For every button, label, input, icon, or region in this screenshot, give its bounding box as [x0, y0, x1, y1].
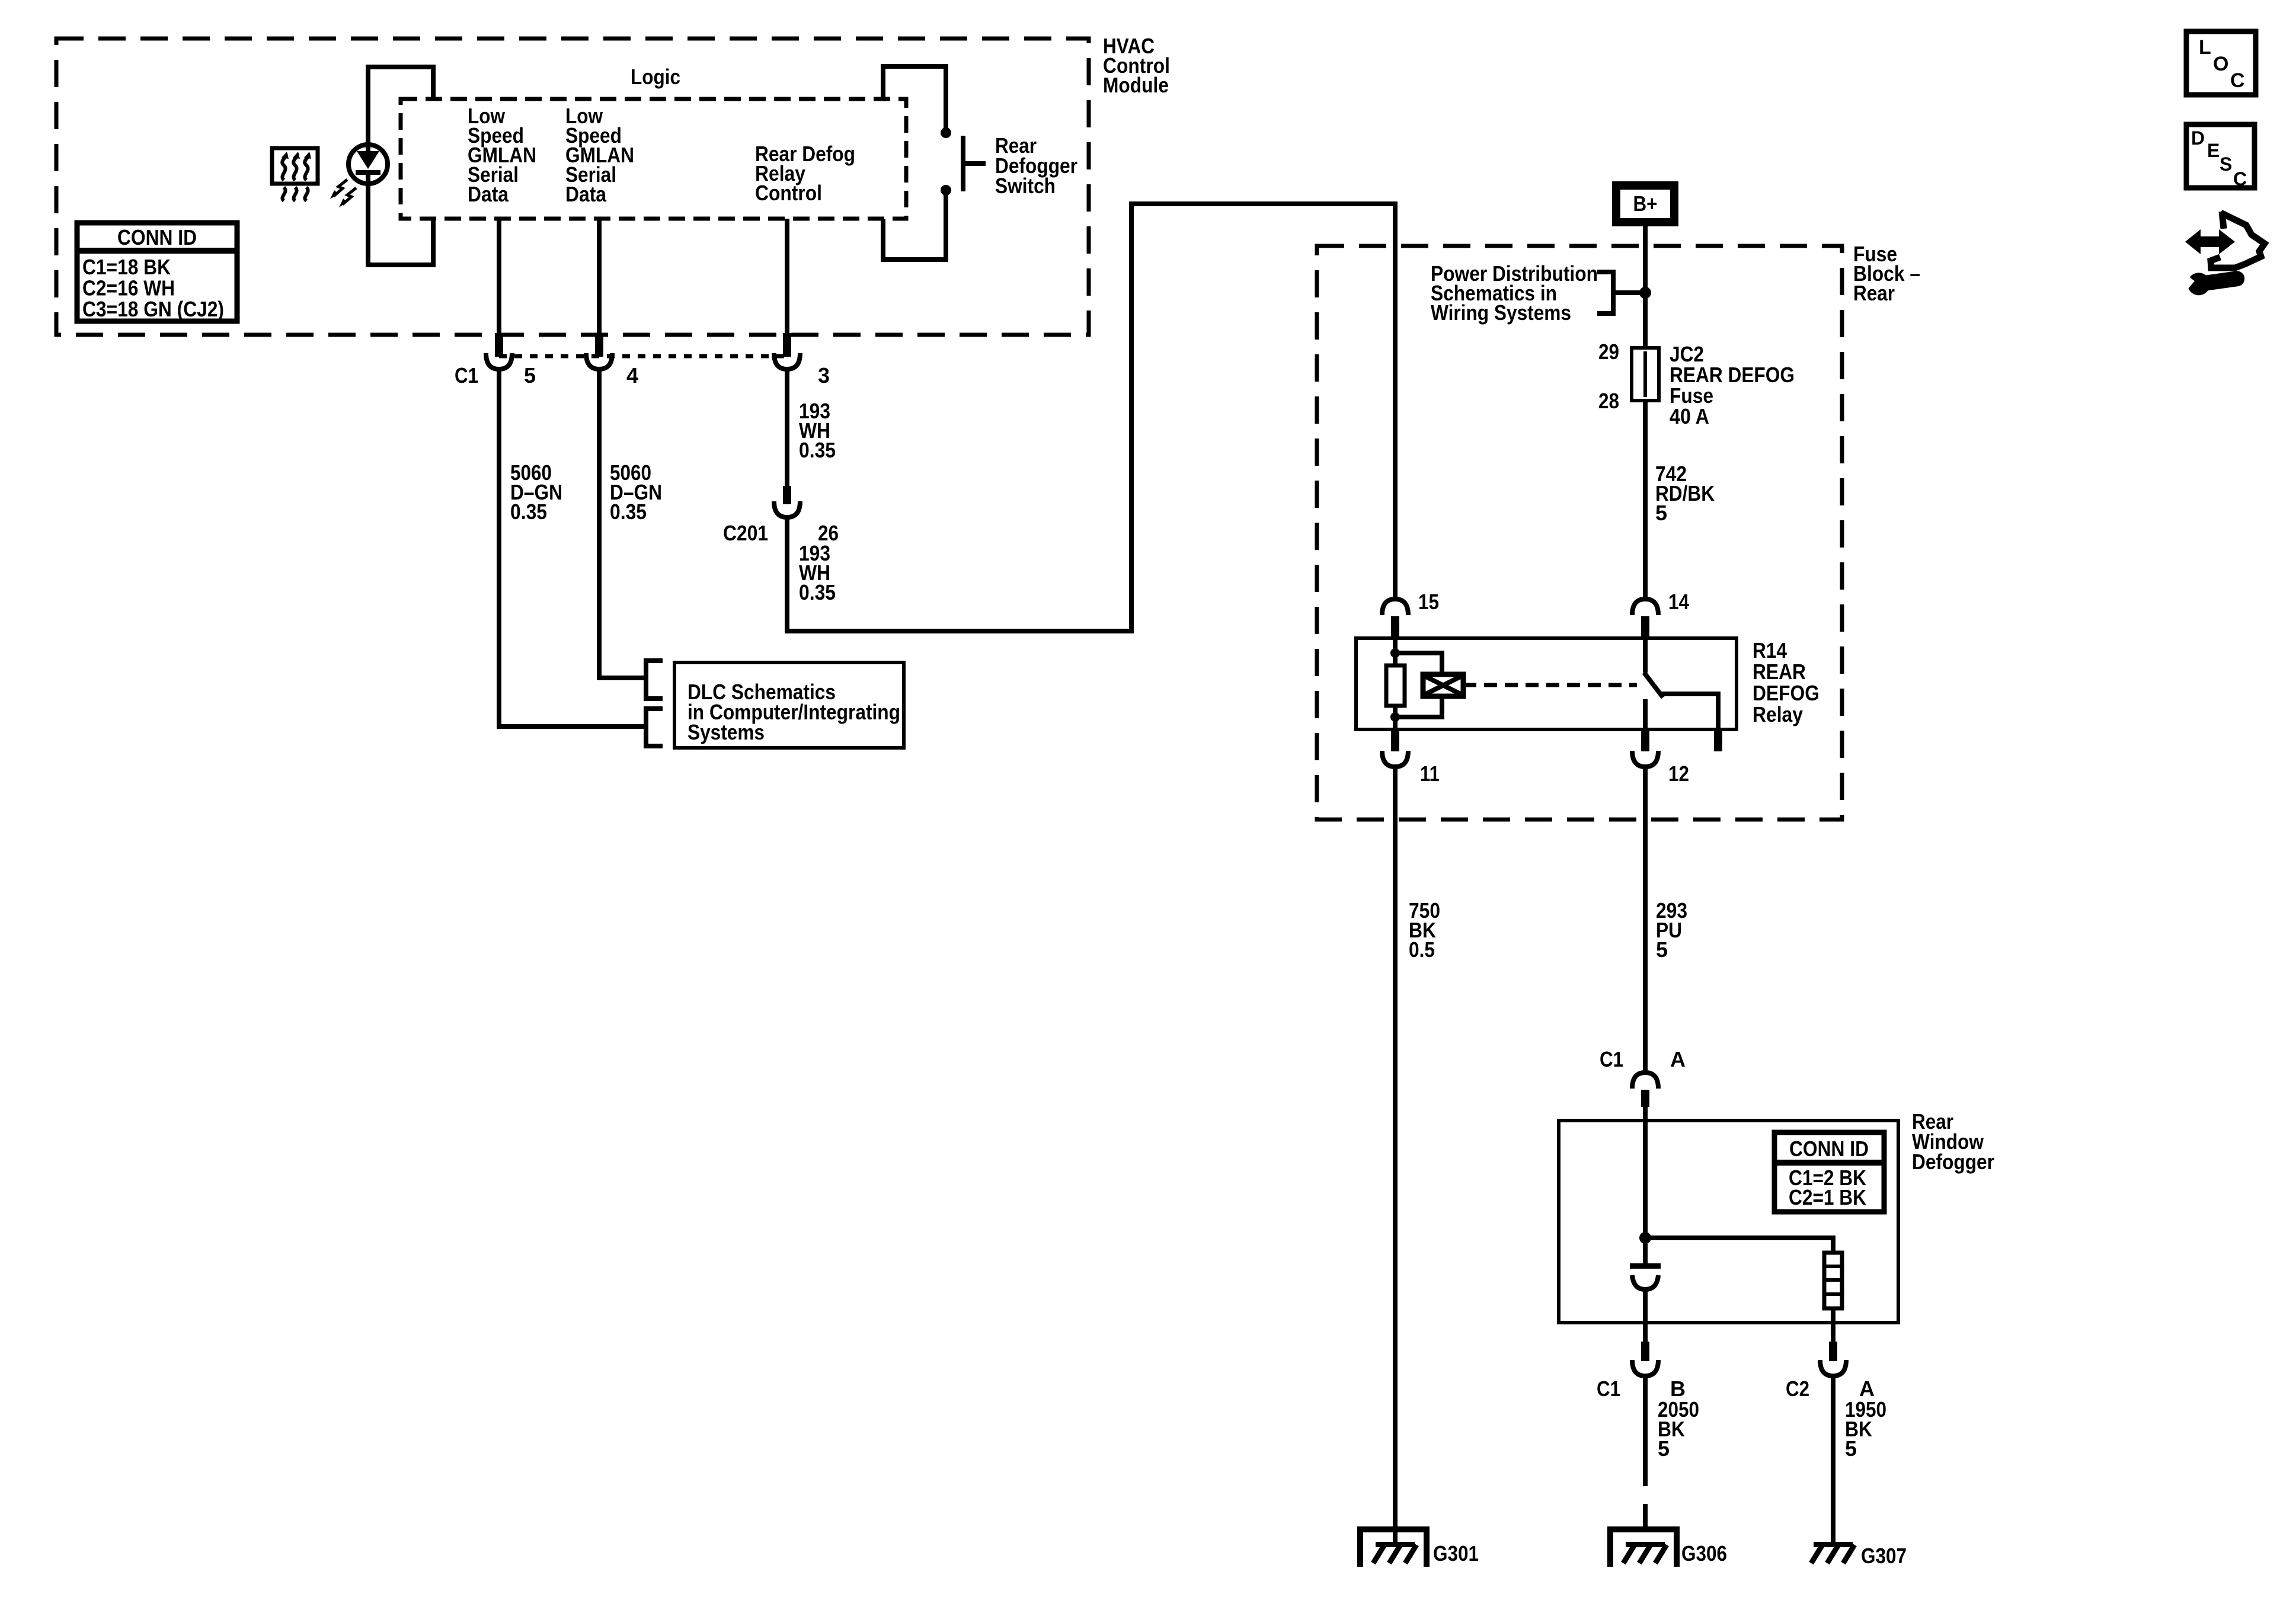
svg-text:L: L — [2199, 36, 2211, 59]
LED indicator — [348, 145, 388, 184]
switch contact dot lower — [941, 185, 951, 196]
coil junction bottom — [1390, 712, 1400, 722]
svg-text:Relay: Relay — [1753, 702, 1803, 726]
svg-text:12: 12 — [1668, 761, 1689, 786]
svg-text:Module: Module — [1103, 73, 1169, 97]
wire 193 WH upper — [785, 369, 789, 486]
svg-text:5: 5 — [1658, 1436, 1670, 1461]
relay pin 14 terminal — [1632, 599, 1658, 615]
connector C1 B — [1643, 1323, 1648, 1342]
wire 2050 BK dashed part — [1643, 1459, 1648, 1541]
fuse JC2 body — [1632, 348, 1659, 401]
defogger junction — [1639, 1232, 1651, 1244]
svg-text:Defogger: Defogger — [1912, 1150, 1994, 1174]
svg-text:C1: C1 — [1597, 1377, 1620, 1401]
svg-text:REAR: REAR — [1753, 660, 1806, 684]
relay NO contact path — [1661, 694, 1718, 729]
defogger grid pickup — [1632, 1275, 1658, 1289]
svg-text:C1: C1 — [455, 363, 478, 388]
rear defogger indicator icon — [272, 148, 318, 184]
wire 2050 BK solid part — [1643, 1376, 1648, 1459]
svg-text:Systems: Systems — [687, 720, 765, 744]
svg-text:0.35: 0.35 — [799, 580, 836, 604]
svg-text:3: 3 — [818, 363, 830, 388]
svg-text:29: 29 — [1598, 340, 1619, 364]
defogger feed wire — [1643, 1121, 1648, 1263]
svg-text:0.5: 0.5 — [1409, 937, 1435, 962]
wire 742 RD/BK — [1643, 401, 1648, 600]
B+ battery terminal — [1616, 185, 1674, 222]
svg-text:C2: C2 — [1786, 1377, 1809, 1401]
svg-text:G307: G307 — [1861, 1544, 1907, 1568]
connector C1 A — [1632, 1073, 1658, 1089]
svg-text:15: 15 — [1418, 590, 1439, 614]
svg-text:A: A — [1670, 1047, 1686, 1071]
svg-text:Control: Control — [755, 181, 822, 205]
DLC connector bracket upper — [646, 661, 663, 699]
CONN ID table (HVAC) — [77, 223, 237, 321]
wire 5060 D-GN (pin 5) — [499, 369, 644, 726]
relay pin 12 terminal — [1641, 729, 1649, 751]
svg-text:Data: Data — [565, 182, 607, 206]
svg-text:G306: G306 — [1681, 1541, 1727, 1566]
switch contact dot upper — [941, 127, 951, 138]
pin 4 terminal — [595, 333, 603, 357]
coil junction top — [1390, 648, 1400, 658]
svg-text:5: 5 — [1845, 1436, 1857, 1461]
svg-text:Switch: Switch — [995, 174, 1056, 198]
svg-text:R14: R14 — [1753, 638, 1787, 662]
svg-text:DEFOG: DEFOG — [1753, 681, 1819, 705]
Rear Window Defogger box — [1559, 1121, 1898, 1323]
push-button actuator — [963, 136, 986, 191]
ground G301 — [1360, 1529, 1427, 1567]
LOC icon box — [2186, 31, 2256, 95]
fuse JC2 wire — [1643, 348, 1648, 401]
pin 4 wire — [597, 219, 602, 333]
wire: LED to Logic box bracket bottom — [368, 184, 433, 265]
svg-text:C2=1 BK: C2=1 BK — [1789, 1185, 1866, 1209]
svg-text:C3=18 GN (CJ2): C3=18 GN (CJ2) — [82, 297, 224, 321]
power distribution reference bracket — [1597, 272, 1642, 313]
relay NO contact stub — [1714, 729, 1722, 751]
Logic dashed box — [401, 99, 906, 219]
svg-text:28: 28 — [1598, 389, 1619, 413]
navigation icon: outline shape — [2211, 212, 2265, 268]
svg-text:B+: B+ — [1633, 191, 1658, 216]
svg-text:C1: C1 — [1600, 1047, 1623, 1071]
C1 connector row dotted line — [499, 354, 787, 359]
svg-text:G301: G301 — [1433, 1541, 1479, 1566]
coil parallel branch — [1395, 653, 1442, 717]
svg-text:CONN ID: CONN ID — [1789, 1137, 1869, 1161]
relay actuating dashed link — [1463, 683, 1637, 687]
Fuse Block - Rear dashed box — [1317, 246, 1842, 820]
relay pin 12 wire inside — [1643, 699, 1648, 729]
svg-text:Data: Data — [468, 182, 509, 206]
pin 3 wire — [785, 219, 789, 333]
svg-text:C201: C201 — [723, 521, 768, 545]
ground G307 — [1814, 1542, 1853, 1547]
CONN ID table (defogger) — [1774, 1132, 1884, 1212]
wire 193 WH to relay pin 15 — [787, 204, 1395, 631]
connector C2 A — [1831, 1323, 1835, 1342]
HVAC Control Module dashed box — [56, 39, 1089, 335]
svg-text:5: 5 — [1655, 501, 1667, 525]
wire pin 5 — [497, 219, 501, 333]
LED light arrows — [343, 188, 356, 204]
ground G306 — [1610, 1529, 1677, 1567]
navigation icon: wrench — [2176, 267, 2246, 298]
wire 5060 D-GN (pin 4) — [599, 369, 644, 678]
svg-text:0.35: 0.35 — [510, 500, 547, 524]
DESC icon box — [2186, 124, 2255, 188]
junction node — [1639, 287, 1651, 299]
svg-text:40 A: 40 A — [1670, 404, 1709, 428]
svg-text:5: 5 — [524, 363, 536, 388]
relay switch arm — [1644, 673, 1663, 697]
wire 750 BK to G301 — [1393, 767, 1398, 1545]
svg-text:C: C — [2233, 168, 2247, 190]
pin 3 terminal — [783, 333, 791, 357]
defogger element — [1824, 1253, 1842, 1308]
connector C201 — [783, 486, 791, 504]
svg-text:S: S — [2220, 153, 2232, 175]
DLC Schematics box — [674, 662, 904, 748]
Rear Defogger Switch bracket top — [883, 66, 946, 129]
wire 293 PU — [1643, 767, 1648, 1073]
relay switch common from pin 14 — [1643, 638, 1648, 673]
svg-text:O: O — [2213, 53, 2228, 75]
svg-text:5: 5 — [1656, 937, 1668, 962]
svg-text:E: E — [2207, 140, 2220, 161]
relay coil wire — [1393, 638, 1398, 729]
relay R14 box — [1356, 638, 1737, 729]
svg-text:Wiring Systems: Wiring Systems — [1431, 300, 1571, 325]
svg-text:4: 4 — [626, 363, 638, 388]
svg-text:D: D — [2191, 127, 2205, 149]
relay coil — [1386, 665, 1405, 706]
wire: LED to Logic box bracket top — [368, 67, 433, 145]
svg-text:0.35: 0.35 — [610, 500, 647, 524]
svg-text:Logic: Logic — [631, 65, 680, 89]
pin 5 terminal — [495, 333, 503, 357]
B+ feed wire — [1643, 226, 1648, 350]
DLC connector bracket lower — [646, 709, 663, 746]
svg-text:0.35: 0.35 — [799, 438, 836, 462]
relay pin 11 terminal — [1391, 729, 1399, 751]
relay pin 15 terminal — [1382, 599, 1408, 615]
svg-text:11: 11 — [1420, 761, 1440, 786]
svg-text:C: C — [2230, 69, 2245, 92]
navigation icon: double arrow — [2185, 229, 2235, 254]
svg-text:CONN ID: CONN ID — [117, 225, 197, 249]
svg-text:Rear: Rear — [1853, 281, 1895, 305]
Rear Defogger Switch bracket bottom — [883, 194, 946, 260]
svg-text:14: 14 — [1668, 590, 1689, 614]
defogger grid plate — [1630, 1263, 1661, 1269]
relay actuator bowtie — [1423, 674, 1463, 696]
wire 1950 BK — [1831, 1376, 1835, 1544]
defogger internal link — [1645, 1238, 1833, 1253]
